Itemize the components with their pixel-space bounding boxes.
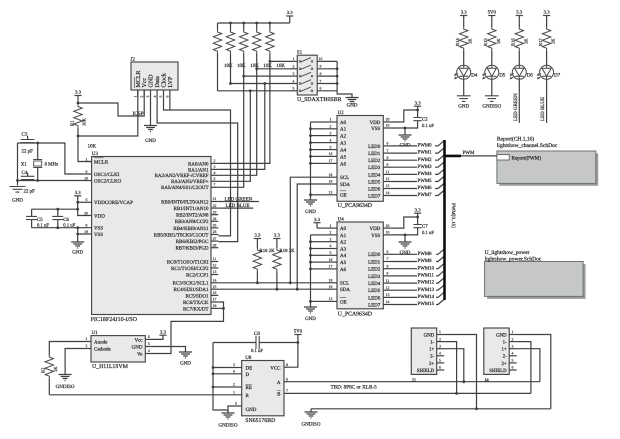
transceiver U8 SN65176BD (242, 361, 284, 416)
ground GND VSS (71, 242, 84, 248)
wire SDA riser to U2 (297, 184, 326, 289)
svg-text:GND: GND (12, 197, 23, 203)
svg-text:RB3/AN9/CCP2: RB3/AN9/CCP2 (175, 219, 209, 225)
svg-text:LED1: LED1 (368, 151, 381, 157)
svg-text:1: 1 (439, 330, 441, 334)
svg-text:C7: C7 (422, 223, 428, 229)
wire S1 row5 (218, 90, 291, 92)
svg-text:1-: 1- (503, 340, 507, 346)
svg-text:5: 5 (293, 87, 295, 91)
wire RC7 to opto Vo (218, 307, 223, 309)
ground GNDISO rail (305, 412, 318, 418)
wire PWM14 net (392, 296, 418, 298)
svg-text:RB6/KBI2/PGC: RB6/KBI2/PGC (176, 239, 209, 245)
svg-text:RB4/KBI0/AN11: RB4/KBI0/AN11 (173, 226, 209, 232)
svg-text:RA3/AN3/VREF+: RA3/AN3/VREF+ (171, 179, 209, 185)
svg-text:10K: 10K (237, 63, 246, 69)
svg-text:10: 10 (84, 176, 88, 180)
svg-text:PWM1: PWM1 (418, 150, 433, 156)
svg-text:27: 27 (213, 237, 217, 241)
U1 pin stubs (84, 341, 91, 343)
LED D7 (540, 65, 554, 79)
svg-text:21: 21 (213, 197, 217, 201)
svg-text:A0: A0 (340, 120, 347, 126)
ground GND U1 (179, 352, 192, 358)
svg-text:5: 5 (148, 342, 150, 346)
svg-text:LED0: LED0 (368, 252, 381, 258)
svg-text:GND: GND (424, 332, 435, 338)
svg-text:LVP: LVP (168, 76, 174, 87)
svg-text:7: 7 (320, 79, 322, 83)
svg-text:5V0: 5V0 (294, 329, 303, 335)
svg-text:6: 6 (320, 87, 322, 91)
svg-text:13: 13 (329, 297, 333, 301)
svg-text:2: 2 (512, 337, 514, 341)
wire S1 row3 (244, 75, 291, 77)
svg-text:20: 20 (386, 118, 390, 122)
svg-text:PWM6: PWM6 (418, 185, 433, 191)
svg-text:J4: J4 (484, 378, 489, 384)
svg-text:LED2: LED2 (368, 158, 381, 164)
svg-text:LED2: LED2 (368, 267, 381, 273)
S1 switch element 5 (291, 90, 298, 92)
svg-text:5: 5 (159, 96, 163, 98)
svg-text:PWM14: PWM14 (418, 294, 435, 300)
svg-text:VSS: VSS (371, 126, 380, 132)
svg-text:3.3: 3.3 (415, 100, 422, 106)
svg-text:6: 6 (86, 198, 88, 202)
svg-text:1K: 1K (53, 366, 58, 372)
svg-text:6: 6 (286, 377, 288, 381)
optocoupler U1 H11L1 (91, 336, 145, 362)
svg-text:OE: OE (340, 193, 347, 199)
svg-text:1: 1 (330, 118, 332, 122)
svg-text:Vo: Vo (137, 352, 143, 358)
svg-text:A: A (277, 380, 281, 386)
svg-text:1: 1 (233, 390, 235, 394)
svg-text:C3: C3 (22, 132, 28, 138)
svg-text:GND: GND (305, 209, 316, 215)
svg-text:RC0/T1OSO/T1CKI: RC0/T1OSO/T1CKI (167, 259, 209, 265)
svg-text:R2: R2 (41, 367, 46, 373)
svg-text:Vcc: Vcc (142, 78, 148, 88)
svg-text:19: 19 (84, 230, 88, 234)
svg-text:SCL: SCL (340, 281, 349, 287)
svg-text:18: 18 (213, 304, 217, 308)
svg-text:5: 5 (235, 402, 237, 406)
svg-text:GNDISO: GNDISO (302, 421, 321, 427)
svg-text:RA2/AN2/VREF-/CVREF: RA2/AN2/VREF-/CVREF (155, 173, 209, 179)
svg-text:Report(CH.1,16): Report(CH.1,16) (497, 136, 534, 142)
wire 3.3 rail (218, 22, 290, 24)
svg-text:LED BLUE: LED BLUE (226, 203, 250, 209)
ground GNDISO LED (485, 96, 499, 102)
svg-text:U_SDAXTH0SBR: U_SDAXTH0SBR (297, 97, 342, 103)
svg-text:5: 5 (512, 359, 514, 363)
svg-text:3.3: 3.3 (415, 207, 422, 213)
svg-text:Cathode: Cathode (94, 347, 111, 353)
svg-text:R18 2K: R18 2K (260, 248, 276, 254)
resistor R14 1K (460, 27, 468, 50)
sheet port Report(PWM) (497, 155, 509, 160)
svg-text:U_lightshow_power: U_lightshow_power (485, 250, 530, 256)
svg-text:OSC2/CLKO: OSC2/CLKO (94, 178, 122, 184)
svg-text:1K: 1K (551, 38, 556, 44)
LED driver U4 PCA9634 (337, 222, 383, 309)
svg-text:VDD: VDD (369, 120, 380, 126)
svg-text:Anode: Anode (94, 340, 108, 346)
svg-text:1-: 1- (430, 340, 434, 346)
svg-text:LED3: LED3 (368, 165, 381, 171)
svg-text:LED GREEN: LED GREEN (513, 93, 519, 121)
ground GNDISO opto (59, 375, 72, 381)
svg-text:R16: R16 (511, 38, 516, 46)
svg-text:SCL: SCL (340, 175, 349, 181)
wire PWM9 net (392, 261, 418, 263)
svg-text:TBD: 8P8C or XLR-5: TBD: 8P8C or XLR-5 (331, 384, 378, 390)
svg-text:D7: D7 (554, 73, 561, 79)
svg-text:19: 19 (329, 285, 333, 289)
wire U1 GND (152, 347, 186, 352)
resistor R19 2K SDA pullup (273, 248, 281, 271)
microcontroller U3 PIC18F24J10 (92, 157, 211, 315)
wire PWM11 net (392, 275, 418, 277)
wire J4 GND drop (517, 335, 551, 409)
svg-text:1K: 1K (496, 38, 501, 44)
svg-text:17: 17 (329, 159, 333, 163)
svg-text:12: 12 (386, 286, 390, 290)
svg-text:2+: 2+ (501, 361, 506, 367)
wire SDA bus (218, 288, 326, 290)
svg-text:2: 2 (86, 344, 88, 348)
svg-text:LED0: LED0 (368, 144, 381, 150)
svg-text:6: 6 (387, 142, 389, 146)
svg-text:2: 2 (214, 159, 216, 163)
wire J1 1- to B (444, 342, 456, 394)
svg-text:VDDCORE/VCAP: VDDCORE/VCAP (94, 200, 133, 206)
bus wire PWM to sheet port (445, 155, 462, 158)
wire 3.3 to J2 Vcc (78, 90, 144, 116)
svg-text:1+: 1+ (429, 347, 434, 353)
svg-text:3.3: 3.3 (516, 10, 523, 16)
svg-text:RA1/AN1: RA1/AN1 (188, 167, 209, 173)
svg-text:10: 10 (386, 124, 390, 128)
wire U4 VSS to ground (392, 235, 406, 242)
svg-text:PWM: PWM (463, 150, 476, 156)
resistor 10K array #5 (269, 22, 272, 25)
svg-text:2-: 2- (503, 354, 507, 360)
svg-text:0.1 uF: 0.1 uF (422, 123, 434, 129)
net label LED GREEN on RB0 (218, 201, 259, 203)
wire LED BLUE net (546, 79, 548, 123)
svg-text:3: 3 (439, 344, 441, 348)
svg-text:MCLR: MCLR (136, 70, 142, 87)
wire 5V0 to VCC (290, 343, 298, 368)
U8 pin stubs (230, 367, 242, 369)
wire LED GREEN net (518, 79, 520, 123)
resistor R16 1K (515, 27, 523, 50)
svg-text:4: 4 (512, 352, 514, 356)
svg-text:VDD: VDD (94, 213, 105, 219)
wire U4 OE to ground (311, 300, 327, 302)
svg-text:6: 6 (166, 96, 170, 98)
wire PWM3 net (392, 166, 418, 168)
svg-text:A2: A2 (340, 134, 347, 140)
svg-text:LED6: LED6 (368, 295, 381, 301)
svg-text:8 MHz: 8 MHz (45, 162, 60, 168)
svg-text:A1: A1 (340, 127, 347, 133)
svg-text:RC4/SDI1/SDA1: RC4/SDI1/SDA1 (173, 287, 209, 293)
wire S1 row2 (257, 68, 291, 70)
svg-text:GND: GND (246, 407, 257, 413)
svg-text:1: 1 (86, 157, 88, 161)
node MCLR bottom junction (77, 135, 80, 138)
svg-text:C4: C4 (22, 170, 28, 176)
svg-text:7: 7 (286, 389, 288, 393)
svg-text:24: 24 (213, 217, 217, 221)
svg-text:6: 6 (512, 366, 514, 370)
svg-text:OSC1/CLKI: OSC1/CLKI (94, 172, 120, 178)
wire B line (290, 392, 531, 394)
svg-text:4: 4 (233, 370, 235, 374)
svg-text:PWM10: PWM10 (418, 265, 435, 271)
svg-text:3.3: 3.3 (75, 190, 82, 196)
svg-text:U8: U8 (245, 355, 252, 361)
svg-text:7: 7 (214, 183, 216, 187)
wire S1 row1 (270, 60, 291, 62)
svg-text:R15: R15 (483, 38, 488, 46)
svg-text:R19 2K: R19 2K (280, 248, 296, 254)
svg-text:2: 2 (233, 383, 235, 387)
svg-text:X1: X1 (21, 162, 28, 168)
wire J2 LVP stub (169, 97, 171, 110)
svg-text:10K: 10K (88, 143, 97, 149)
svg-text:MCLR: MCLR (94, 159, 109, 165)
svg-text:LED3: LED3 (368, 274, 381, 280)
svg-text:LED4: LED4 (368, 172, 381, 178)
svg-text:17: 17 (329, 265, 333, 269)
wire PWM7 net (392, 195, 418, 197)
svg-text:10K: 10K (276, 63, 285, 69)
resistor R18 2K SCL pullup (253, 248, 261, 271)
svg-text:5V0: 5V0 (488, 10, 497, 16)
wire U8 control pins grounded (213, 343, 228, 413)
svg-text:9: 9 (86, 170, 88, 174)
svg-text:1: 1 (134, 96, 138, 98)
svg-text:PWM4: PWM4 (418, 171, 433, 177)
svg-text:1: 1 (86, 337, 88, 341)
svg-text:15: 15 (213, 285, 217, 289)
svg-text:11: 11 (213, 257, 217, 261)
connector J2 ICSP header (131, 62, 178, 90)
svg-text:3.3: 3.3 (254, 233, 261, 239)
svg-text:LED4: LED4 (368, 281, 381, 287)
svg-text:4: 4 (330, 138, 332, 142)
svg-text:GND: GND (458, 103, 469, 109)
svg-text:GND: GND (180, 360, 191, 366)
svg-text:RA5/AN4/SS1/C2OUT: RA5/AN4/SS1/C2OUT (161, 185, 209, 191)
S1 switch element 1 (291, 60, 298, 62)
svg-text:S1: S1 (297, 50, 303, 56)
wire LED cathode to ground (491, 79, 493, 96)
svg-text:A6: A6 (340, 267, 347, 273)
svg-text:23: 23 (213, 210, 217, 214)
svg-text:3.3: 3.3 (314, 217, 321, 223)
wire opto anode to R2 (49, 342, 84, 356)
U3 left pin stubs (84, 161, 91, 163)
wire U2 OE to ground (311, 194, 327, 196)
svg-text:VSS: VSS (371, 233, 380, 239)
ground GND U4 (399, 242, 412, 248)
svg-text:J1: J1 (412, 378, 417, 384)
svg-text:A4: A4 (340, 148, 347, 154)
svg-text:13: 13 (329, 191, 333, 195)
wire PWM8 net (392, 253, 418, 255)
svg-text:A6: A6 (340, 161, 347, 167)
wire VSS rail (32, 227, 92, 229)
node OSC2 wire (18, 180, 92, 182)
svg-text:D6: D6 (527, 73, 534, 79)
svg-text:8: 8 (86, 224, 88, 228)
LED D6 (512, 65, 526, 79)
svg-text:19: 19 (329, 180, 333, 184)
svg-text:25: 25 (213, 224, 217, 228)
svg-text:LED1: LED1 (368, 259, 381, 265)
wire U2 address pins to ground (311, 121, 327, 123)
wire RA1 column (263, 82, 266, 85)
svg-text:5: 5 (214, 177, 216, 181)
svg-text:RB5/KBI1/T0CKI/C1OUT: RB5/KBI1/T0CKI/C1OUT (154, 232, 209, 238)
svg-text:3: 3 (330, 237, 332, 241)
svg-text:4: 4 (330, 244, 332, 248)
svg-text:VDD: VDD (369, 226, 380, 232)
S1 switch element 2 (291, 68, 298, 70)
svg-text:PWM12: PWM12 (418, 280, 435, 286)
wire RA3 column (249, 89, 252, 92)
svg-text:14: 14 (213, 279, 217, 283)
wire A line (290, 381, 540, 383)
svg-text:C6: C6 (63, 217, 69, 223)
LED D4 (457, 65, 471, 79)
resistor R2 1K (45, 355, 53, 378)
svg-text:PWM9: PWM9 (418, 258, 433, 264)
capacitor C5 0.1uF (31, 209, 33, 216)
svg-text:20: 20 (386, 224, 390, 228)
wire PWM15 net (392, 304, 418, 306)
svg-text:Clock: Clock (161, 73, 168, 87)
svg-text:3.3: 3.3 (160, 329, 167, 335)
svg-text:RC6/TX/CK: RC6/TX/CK (183, 300, 209, 306)
svg-text:8: 8 (286, 363, 288, 367)
svg-text:R17: R17 (538, 38, 543, 46)
wire SCL riser to U2 (290, 177, 326, 283)
capacitor C2 0.1uF (417, 110, 419, 118)
bus PWM[0..15] (443, 140, 446, 300)
svg-text:9: 9 (320, 65, 322, 69)
wire RA0 column (218, 61, 270, 163)
svg-text:U4: U4 (338, 217, 345, 223)
svg-text:13: 13 (386, 184, 390, 188)
svg-text:GNDISO: GNDISO (219, 422, 238, 428)
wire RA5 column (218, 76, 243, 187)
svg-text:5: 5 (330, 145, 332, 149)
ground GND J2 (144, 126, 157, 132)
svg-text:10K: 10K (263, 63, 272, 69)
wire J2 Data to U3 RB7 (157, 97, 238, 242)
svg-text:3: 3 (293, 72, 295, 76)
svg-text:1: 1 (330, 224, 332, 228)
svg-text:8: 8 (387, 264, 389, 268)
svg-text:5: 5 (439, 359, 441, 363)
svg-text:2: 2 (330, 231, 332, 235)
power 3.3 U4 VDD (392, 217, 418, 228)
svg-text:PWM2: PWM2 (418, 157, 433, 163)
svg-text:14: 14 (386, 300, 390, 304)
sheet symbol lightshow_power (487, 264, 585, 299)
svg-text:C8: C8 (254, 331, 260, 337)
svg-text:11: 11 (386, 279, 390, 283)
connector J4 (484, 328, 509, 374)
LED D5 (485, 65, 499, 79)
wire RA2 column (218, 69, 256, 176)
svg-text:10: 10 (386, 231, 390, 235)
svg-text:VCC: VCC (270, 365, 281, 371)
wire MCLR net to J2 pin1 (78, 90, 138, 136)
svg-text:26: 26 (213, 230, 217, 234)
svg-text:14: 14 (386, 191, 390, 195)
svg-text:U3: U3 (92, 151, 99, 157)
svg-text:C2: C2 (422, 116, 428, 122)
svg-text:D4: D4 (471, 73, 478, 79)
svg-text:7: 7 (387, 257, 389, 261)
svg-text:GND: GND (72, 249, 83, 255)
resistor R1 10K MCLR pullup (74, 105, 82, 128)
wire J1 1+ to A (444, 349, 464, 382)
svg-text:Vcc: Vcc (134, 337, 143, 343)
svg-text:SDA: SDA (340, 287, 350, 293)
svg-text:A1: A1 (340, 233, 347, 239)
svg-text:3.3: 3.3 (544, 10, 551, 16)
svg-text:A5: A5 (340, 260, 347, 266)
wire PWM4 net (392, 173, 418, 175)
svg-text:10: 10 (319, 57, 323, 61)
svg-text:16: 16 (329, 258, 333, 262)
svg-text:SDA: SDA (340, 182, 350, 188)
svg-text:A0: A0 (340, 226, 347, 232)
resistor R15 1K (488, 27, 496, 50)
svg-text:RC7/RX/DT: RC7/RX/DT (183, 306, 209, 312)
svg-text:RB7/KBI3/PGD: RB7/KBI3/PGD (175, 246, 208, 252)
svg-text:6: 6 (387, 250, 389, 254)
svg-text:A3: A3 (340, 246, 347, 252)
svg-text:GND: GND (149, 74, 155, 88)
svg-text:28: 28 (213, 243, 217, 247)
node OSC1 wire (18, 143, 92, 174)
svg-text:GND: GND (496, 332, 507, 338)
svg-text:SHIELD: SHIELD (417, 368, 435, 374)
svg-text:12: 12 (213, 264, 217, 268)
resistor 10K array #4 (255, 22, 258, 25)
svg-text:LED5: LED5 (368, 288, 381, 294)
connector J1 (411, 328, 436, 374)
svg-text:GNDISO: GNDISO (482, 103, 501, 109)
svg-text:D: D (246, 372, 250, 378)
svg-text:lightshow_power.SchDoc: lightshow_power.SchDoc (485, 257, 542, 263)
svg-text:RC5/SDO1: RC5/SDO1 (185, 293, 209, 299)
svg-text:RB1/INT1/AN10: RB1/INT1/AN10 (174, 206, 210, 212)
svg-text:18: 18 (329, 173, 333, 177)
svg-text:4: 4 (293, 79, 295, 83)
